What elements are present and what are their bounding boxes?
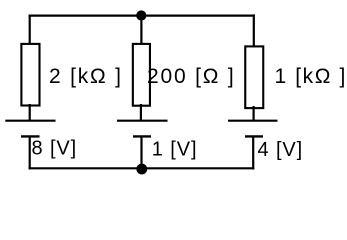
wire R2 to battery V2 — [140, 104, 142, 121]
resistor R2 200 Ohm box — [133, 44, 150, 106]
wire bottom bus — [29, 167, 255, 169]
svg-text:4 [V]: 4 [V] — [258, 139, 304, 161]
wire battery V1 to bottom bus — [29, 136, 31, 169]
resistor R1 2 kOhm box — [21, 44, 39, 106]
battery V1 long plate — [5, 120, 55, 122]
resistor R3 1 kOhm box — [245, 46, 263, 108]
svg-text:200 [Ω ]: 200 [Ω ] — [147, 65, 235, 88]
wire middle branch drop — [140, 16, 142, 46]
wire R1 to battery V1 — [29, 104, 31, 121]
wire left branch drop — [29, 15, 31, 46]
battery V2 long plate — [117, 120, 168, 122]
battery V2 short plate — [133, 135, 151, 137]
battery V3 long plate — [228, 120, 278, 122]
wire right branch drop — [253, 14, 255, 47]
wire battery V2 to bottom bus — [140, 136, 142, 169]
node bottom junction — [136, 164, 147, 175]
svg-text:8 [V]: 8 [V] — [32, 138, 78, 160]
wire battery V3 to bottom bus — [252, 136, 254, 169]
node top junction — [136, 10, 146, 20]
wire top bus — [29, 15, 255, 17]
battery V1 short plate — [21, 135, 40, 137]
battery V3 short plate — [245, 135, 263, 137]
svg-text:2 [kΩ ]: 2 [kΩ ] — [49, 65, 123, 88]
wire R3 to battery V3 — [253, 106, 255, 121]
svg-text:1 [kΩ ]: 1 [kΩ ] — [275, 65, 347, 88]
svg-text:1 [V]: 1 [V] — [152, 139, 198, 161]
